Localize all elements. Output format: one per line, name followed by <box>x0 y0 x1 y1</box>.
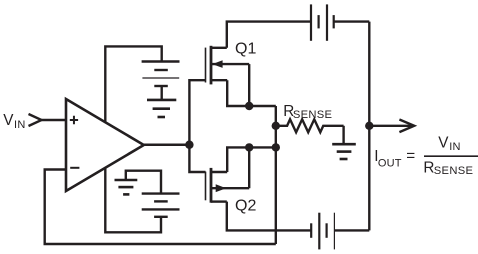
label RSENSE <box>283 103 332 121</box>
wire sense column vertical <box>275 106 277 244</box>
wire battery B1 to ground <box>160 86 162 100</box>
svg-text:=: = <box>406 147 415 164</box>
wire gate bus Q1 <box>189 80 205 145</box>
wire op-amp output to gates <box>144 144 190 146</box>
label IOUT formula <box>374 134 473 177</box>
wire Q1 drain to battery B3 <box>227 22 311 48</box>
output arrow <box>369 125 411 127</box>
ground (left of B2) <box>115 180 138 194</box>
input source arrow <box>29 114 42 126</box>
wire op-amp V+ pin <box>105 46 161 122</box>
node Q1 source/body junction <box>245 102 253 110</box>
node sense column junction <box>272 143 280 151</box>
transistor Q1 <box>206 46 250 85</box>
svg-text:V: V <box>3 112 14 129</box>
battery B3 (top right) <box>311 4 334 40</box>
wire Q1 source to sense node <box>227 80 276 106</box>
wire gate bus Q2 <box>189 145 205 172</box>
wire output line (right vertical) <box>368 22 370 231</box>
label VIN <box>3 112 25 131</box>
wire Q2 drain to battery B4 <box>227 202 311 231</box>
battery B2 (op-amp negative supply) <box>142 194 180 217</box>
wire Q2 body to node <box>248 147 250 188</box>
wire battery B3 to output line <box>334 20 370 22</box>
resistor RSENSE <box>276 119 344 132</box>
ground (below B1) <box>147 100 176 117</box>
wire battery B4 to output line <box>334 229 369 231</box>
wire RSENSE to ground <box>342 126 344 144</box>
svg-text:IN: IN <box>449 141 461 153</box>
wire Q2 source to sense node <box>227 147 276 172</box>
ground (RSENSE) <box>332 144 356 159</box>
svg-text:R: R <box>423 160 434 177</box>
svg-text:Q1: Q1 <box>235 41 256 58</box>
node output junction <box>365 122 373 130</box>
op-amp U1 <box>66 99 144 191</box>
svg-text:IN: IN <box>14 119 26 131</box>
battery B1 (op-amp positive supply) <box>142 62 180 87</box>
wire op-amp V- pin <box>105 168 161 233</box>
wire Q1 body to node <box>248 64 250 106</box>
wire battery B2 to ground <box>126 171 161 194</box>
transistor Q2 <box>206 168 250 203</box>
svg-text:SENSE: SENSE <box>434 165 473 177</box>
fraction bar <box>424 155 478 157</box>
svg-text:V: V <box>438 134 449 151</box>
node RSENSE tap junction <box>272 122 280 130</box>
svg-text:SENSE: SENSE <box>293 109 332 121</box>
node op-amp output junction <box>185 141 193 149</box>
svg-text:OUT: OUT <box>378 157 402 169</box>
wire input to op-amp + <box>42 119 67 121</box>
wire feedback from - input to sense node <box>45 170 276 245</box>
battery B4 (bottom right) <box>311 213 334 250</box>
svg-text:Q2: Q2 <box>235 198 256 215</box>
node Q2 source junction <box>245 143 253 151</box>
